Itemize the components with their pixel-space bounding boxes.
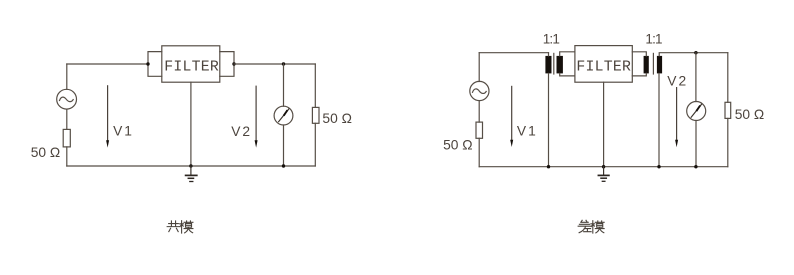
wire: DM meter branch lower [695,121,697,167]
wire: CM left rail lower [66,147,68,166]
node: CM filter input bracket [146,52,162,77]
node: CM meter top junction [282,62,285,65]
svg-text:1:1: 1:1 [645,31,662,46]
node: T2 primary bottom junction [657,165,660,168]
resistor 50 ohm (DM source side) [476,122,483,138]
wire: DM right rail lower [727,118,729,166]
node: DM meter top junction [694,51,697,54]
svg-text:FILTER: FILTER [164,59,219,75]
svg-text:V1: V1 [517,124,538,139]
arrow V1 (CM) [106,86,109,148]
wire: DM source to resistor [478,101,480,123]
ground (CM) [186,164,197,181]
wire: DM bottom rail [479,166,728,168]
svg-text:50 Ω: 50 Ω [31,145,61,160]
resistor 50 ohm (CM source side) [63,129,70,147]
svg-text:FILTER: FILTER [576,59,631,75]
meter M2 (DM receiver) [687,102,706,121]
node: CM filter output bracket [220,52,236,77]
svg-text:50 Ω: 50 Ω [443,137,473,152]
node: CM meter bottom junction [282,164,285,167]
transformer T1 primary winding [545,53,551,167]
arrow V1 (DM) [510,86,513,147]
svg-text:50 Ω: 50 Ω [322,111,352,126]
resistor 50 ohm (DM load) [725,102,731,118]
wire: CM right rail upper [314,64,316,107]
source: CM sine generator [57,89,77,109]
source: DM sine generator [470,81,489,100]
transformer T1 core [553,53,555,74]
wire: DM top rail left segment [479,52,548,54]
wire: DM meter branch upper [695,53,697,102]
transformer T2 primary winding [657,53,728,167]
wire: CM bottom rail [67,165,315,167]
meter M1 (CM receiver) [274,106,293,125]
svg-text:V1: V1 [113,123,134,138]
transformer T2 core [652,53,654,74]
wire: DM right rail upper [727,53,729,103]
svg-text:V2: V2 [231,124,252,139]
wire: CM filter ground stem [190,82,192,166]
wire: DM left rail upper [478,53,480,82]
transformer T1 secondary winding [557,52,575,76]
wire: CM meter branch upper [283,64,285,106]
label: differential mode caption [578,220,604,233]
wire: DM left rail lower [478,138,480,166]
transformer T2 secondary winding [632,52,649,76]
wire: CM left rail upper [66,64,68,89]
arrow V2 (CM) [255,86,258,147]
wire: CM right rail lower [314,123,316,166]
filter box U2 (DM) [575,46,632,83]
svg-text:V2: V2 [667,73,688,88]
svg-text:50 Ω: 50 Ω [735,107,765,122]
wire: CM meter branch lower [283,125,285,166]
wire: CM top rail right segment [234,63,315,65]
ground (DM) [598,165,609,181]
filter box U1 (CM) [162,46,220,82]
label: common mode caption [167,221,193,233]
wire: CM top rail left segment [67,63,148,65]
resistor 50 ohm (CM load) [312,107,319,123]
wire: CM source to resistor [66,109,68,129]
node: DM meter bottom junction [694,165,697,168]
svg-text:1:1: 1:1 [543,31,560,46]
arrow V2 (DM) [675,88,678,148]
node: T1 primary bottom junction [547,165,550,168]
wire: DM filter ground stem [603,82,605,167]
